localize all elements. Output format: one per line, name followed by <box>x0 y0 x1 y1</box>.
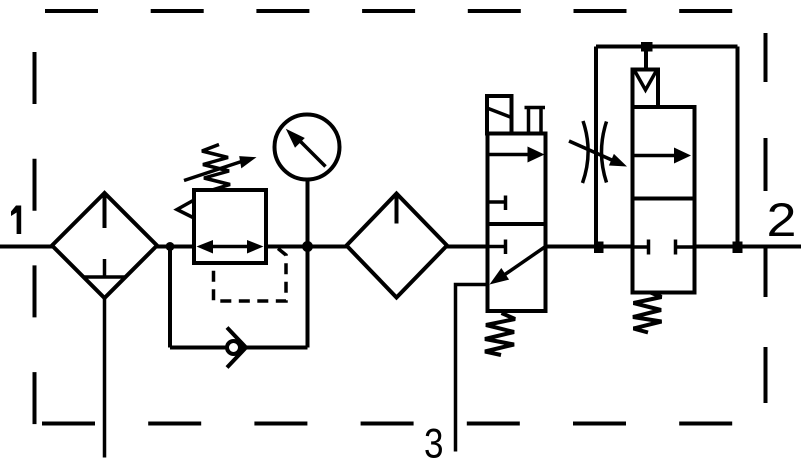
wire: bypass loop bottom <box>170 346 308 350</box>
regulator R1 flow double arrow <box>197 240 264 254</box>
wire: bypass loop right riser <box>306 247 310 348</box>
flow control adjustment arrow <box>569 141 627 167</box>
valve V1 top cell blocked port <box>489 196 506 211</box>
filter F1 separator baffle <box>85 275 125 279</box>
wire: valve V2 to port 2 <box>695 245 801 249</box>
valve V2 bottom cell blocked port right <box>676 240 695 255</box>
wire: pilot loop left riser <box>594 47 598 247</box>
valve V2 bottom cell blocked port left <box>634 240 649 255</box>
wire: bypass loop left drop <box>168 247 172 348</box>
wire: pilot feed to valve V2 pilot <box>644 47 648 70</box>
valve V1 bottom cell blocked port <box>489 240 506 255</box>
enclosure boundary left (dashed) <box>33 52 37 424</box>
regulator R1 body <box>194 190 266 263</box>
wire: gauge stem <box>306 181 310 247</box>
valve V2 return spring <box>633 293 662 333</box>
wire: inlet line port 1 to filter F1 <box>0 245 53 249</box>
junction node loop right on main line <box>733 242 743 254</box>
valve V2 top cell flow arrow <box>634 148 691 164</box>
wire: valve V1 to valve V2 <box>546 245 633 249</box>
wire: regulator to filter F2 <box>266 245 347 249</box>
valve V1 return spring <box>485 313 515 355</box>
flow control throttle arcs <box>583 121 607 183</box>
wire: condensate drain line <box>103 298 107 458</box>
valve V2 pneumatic pilot box <box>633 70 659 108</box>
check valve CV1 <box>227 328 246 368</box>
valve V1 top cell flow arrow <box>489 147 545 163</box>
wire: filter F1 to regulator <box>157 245 194 249</box>
wire: valve V1 exhaust to port 3 <box>456 285 488 452</box>
wire: pilot loop right drop <box>736 47 740 247</box>
valve V2 cell divider <box>633 197 695 201</box>
valve V1 manual override button <box>525 108 546 134</box>
valve V1 exhaust diagonal arrow <box>490 247 546 285</box>
regulator R1 poppet <box>177 200 194 218</box>
regulator R1 adjustment spring <box>202 145 230 191</box>
pressure gauge G1 <box>275 115 340 180</box>
filter F1 body (diamond) <box>52 193 157 298</box>
wire: pilot loop top run <box>596 45 738 49</box>
port label 1 <box>11 206 21 235</box>
wire: filter F2 to valve V1 <box>447 245 488 249</box>
filter F2 element line <box>395 196 399 224</box>
enclosure boundary top (dashed) <box>45 9 734 13</box>
filter F2 body (diamond) <box>347 194 448 298</box>
junction node at gauge stem <box>302 241 313 252</box>
regulator R1 adjustment arrow <box>184 156 257 180</box>
valve V2 body <box>633 107 695 293</box>
filter F1 element line <box>103 195 107 228</box>
filter F1 separator stem <box>103 259 107 276</box>
regulator R1 pilot sensing line (dashed) <box>214 249 287 302</box>
enclosure boundary right (dashed) <box>764 33 768 403</box>
svg-text:2: 2 <box>767 193 797 246</box>
enclosure boundary bottom (dashed) <box>42 422 732 426</box>
junction node loop left on main line <box>594 242 604 254</box>
junction node on pilot top run <box>641 42 653 52</box>
valve V1 solenoid <box>487 96 512 134</box>
valve V1 body <box>488 134 546 312</box>
svg-text:3: 3 <box>424 420 444 467</box>
valve V1 cell divider <box>488 222 546 226</box>
junction node at regulator inlet <box>166 242 175 251</box>
